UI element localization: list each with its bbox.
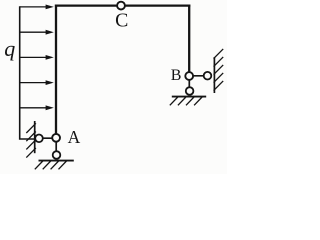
support B: horizontal link bar xyxy=(189,75,207,77)
support A: ground hatch 2 xyxy=(43,161,51,169)
load arrow 2 xyxy=(20,30,54,35)
support A: roller circle on ground xyxy=(53,151,61,159)
support B: ground hatch 1 xyxy=(170,97,178,105)
support A: wall hatch 2 xyxy=(26,132,36,142)
distributed load boundary line (left vertical with bottom return) xyxy=(20,6,35,139)
right column member (corner down to pin B) xyxy=(188,5,190,72)
support A: wall hatch 4 xyxy=(26,148,36,158)
load arrow 1 xyxy=(20,5,54,10)
support B: wall hatch 4 xyxy=(214,73,224,83)
support B: ground hatch 3 xyxy=(186,97,194,105)
support B: ground hatch 2 xyxy=(178,97,186,105)
support A: ground hatch 4 xyxy=(59,161,67,169)
left column member (corner down to pin A) xyxy=(55,5,57,134)
support B: wall hatch 1 xyxy=(214,49,224,59)
support B: ground line xyxy=(172,96,206,98)
support A: ground line xyxy=(39,160,74,162)
support B: ground hatch 4 xyxy=(194,97,202,105)
support B: wall hatch 5 xyxy=(214,81,224,91)
load arrow 4 xyxy=(20,80,54,85)
svg-text:C: C xyxy=(115,10,128,32)
svg-text:q: q xyxy=(4,36,15,61)
support A: wall line xyxy=(34,121,36,153)
support B: wall hatch 3 xyxy=(214,65,224,75)
support A: horizontal link bar xyxy=(39,137,57,139)
support A: ground hatch 3 xyxy=(51,161,59,169)
support B: vertical link bar xyxy=(188,76,190,91)
support A: ground hatch 1 xyxy=(35,161,43,169)
svg-text:B: B xyxy=(171,67,182,84)
support A: vertical link bar xyxy=(55,138,57,155)
support B: roller circle on ground xyxy=(186,87,194,95)
pin A circle xyxy=(52,134,60,142)
load arrow 5 xyxy=(20,105,54,110)
pin B circle xyxy=(185,72,193,80)
top beam (member from left corner through hinge C to right corner) xyxy=(55,4,190,6)
support B: link circle at wall xyxy=(204,72,212,80)
support B: wall hatch 2 xyxy=(214,57,224,67)
support B: wall line xyxy=(213,57,215,93)
svg-text:A: A xyxy=(68,127,81,147)
support A: link circle at wall xyxy=(35,135,43,143)
support A: wall hatch 1 xyxy=(26,123,36,133)
hinge C (circle on top beam) xyxy=(117,2,125,10)
support A: wall hatch 3 xyxy=(26,140,36,150)
load arrow 3 xyxy=(20,55,54,60)
